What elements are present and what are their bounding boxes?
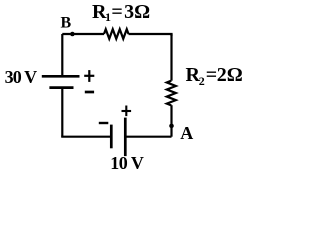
node B junction dot <box>70 32 75 37</box>
wire top left (top-left corner through node B to R1) <box>62 33 104 35</box>
svg-text:10 V: 10 V <box>110 153 144 173</box>
svg-text:R1=3Ω: R1=3Ω <box>92 1 150 24</box>
resistor R2 zigzag <box>167 81 176 106</box>
resistor R1 zigzag <box>104 29 129 39</box>
battery 30V minus sign <box>85 91 94 94</box>
battery 30V long plate (+) <box>42 75 80 78</box>
battery 10V short plate (-) <box>110 125 113 149</box>
node A junction dot <box>169 124 174 129</box>
svg-text:30 V: 30 V <box>5 67 37 87</box>
battery 30V short plate (-) <box>49 86 73 89</box>
wire top right (R1 to top-right corner) <box>129 34 172 36</box>
wire right vertical upper (R2 up to top-right corner) <box>170 34 172 81</box>
wire bottom right (10V battery + plate to bottom-right corner) <box>125 136 171 138</box>
battery 10V long plate (+) <box>124 118 127 157</box>
battery 10V plus sign <box>122 106 132 117</box>
svg-text:B: B <box>61 15 72 32</box>
battery 10V minus sign <box>99 122 109 124</box>
svg-text:R2=2Ω: R2=2Ω <box>186 64 243 88</box>
wire left vertical lower (30V battery - plate down to bottom corner) <box>61 88 63 137</box>
wire bottom left (corner to 10V battery - plate) <box>62 136 111 137</box>
svg-text:A: A <box>180 123 193 143</box>
wire right vertical lower (bottom-right corner up through node A to R2) <box>170 105 172 137</box>
wire left vertical upper (B corner down to 30V battery + plate) <box>61 34 63 76</box>
battery 30V plus sign <box>84 70 94 82</box>
